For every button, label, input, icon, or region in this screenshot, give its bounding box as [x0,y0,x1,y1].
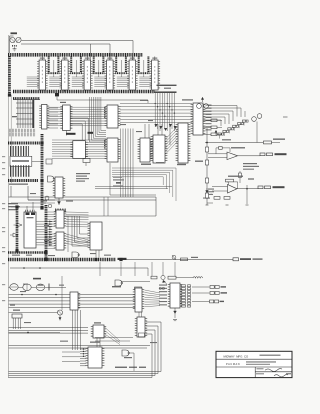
IC U7 [63,105,71,131]
U7 ref label [60,102,66,103]
wire [21,43,110,45]
IC U9 [107,138,118,162]
IC U26 [88,347,102,368]
wire [132,41,134,60]
resistor ladder R13 [228,128,231,130]
op-amp label [231,147,245,148]
+5V arrow 2 [215,131,217,135]
transistor Q10 [48,204,52,208]
vertical wire [246,185,248,204]
wire [62,351,80,353]
+5v label [248,178,254,179]
nested wires [72,216,88,246]
gate G1 [48,176,55,182]
transistor Q7 [257,114,262,119]
parts near op-amp 2 [210,193,212,195]
bus (bottom band under ICs) [13,90,154,93]
IC U24 [135,288,142,312]
wire [121,281,150,283]
resistor R23 [205,160,208,165]
junction dots on y268 [23,267,25,269]
IC U4 stubs [109,57,111,61]
wire [204,117,226,124]
pin fan left of U2 [49,76,61,78]
wire fan right [66,211,89,214]
bus tap blob [66,133,76,135]
wire [103,197,105,216]
zener D3 [206,188,208,196]
bus (vertical drop) [102,57,104,73]
left label block [208,189,214,190]
op-amp 2 label [228,176,243,177]
net label [12,255,20,256]
arrowheads [49,221,52,222]
IC U11 [55,177,63,198]
transistor Q1 [10,37,15,42]
junction blob [40,179,43,182]
IC U24 fan [145,290,161,293]
U4 ref label [107,58,112,59]
label smudges U26 [90,342,100,343]
part [83,159,90,163]
label block [76,173,90,174]
wire [95,186,172,188]
IC U5 [129,60,136,90]
wire [28,186,156,200]
net label [66,201,73,202]
junction dots U8 left [104,107,105,108]
IC U6 [152,60,159,90]
resistor R28 [239,171,241,183]
IC U13 [153,135,165,163]
arrow above U28 [164,281,167,285]
wire [22,40,134,42]
svg-text:MIDWAY MFG CO: MIDWAY MFG CO [224,354,249,358]
drawn label [256,373,264,374]
IC U5 stubs [131,57,133,61]
diode D1 [17,223,22,227]
resistor pack RP1 bar [154,91,177,93]
left pins U26 [80,348,86,350]
wire [204,120,222,126]
resistor row [55,209,66,213]
junction blob [44,251,47,254]
IC U3 stubs [86,57,88,61]
IC U27 [137,317,145,337]
speaker label [275,153,287,155]
wire [204,114,230,124]
IC U10 [73,141,86,159]
bus (vertical drop) [48,57,50,73]
IC U23 [70,292,78,310]
part below U27 [139,333,145,337]
net label [20,291,26,292]
label block VOL ADJ [243,163,257,164]
RN1 top bar [13,99,40,101]
wire bundle vert [72,310,74,350]
parts below op-amp [214,197,220,200]
output RC row 1 [210,286,214,289]
label block 4-16 line [113,177,122,178]
capacitor C11 [43,200,47,202]
net label [90,253,96,254]
junction [27,332,29,334]
resistor R27 [226,179,234,182]
wire bundle corners [112,168,176,201]
wire [70,118,88,140]
IC U3 label [86,66,88,84]
junction blob [15,205,18,208]
IC U15 [193,103,203,135]
+5V arrow [202,98,204,102]
date text [286,373,291,374]
output RC row 3 [210,300,214,303]
margin mark [2,247,5,248]
bus (bottom of U) [48,72,60,74]
wire [192,286,210,288]
U6 ref label [152,58,157,59]
signature scribble 2 [274,374,288,377]
approved label [257,368,264,369]
net label [44,225,49,226]
wire [238,155,260,157]
net label [136,131,142,132]
wire fan right 2 [66,234,89,240]
IC U1 label [41,66,43,84]
gate G8 [122,350,129,356]
crystal Y1 [12,314,22,318]
ground [13,48,17,50]
diode D2 [13,233,18,237]
op-amp U31 [228,185,238,194]
U25 ref label [94,322,101,323]
bus (vertical drop) [147,57,149,73]
wire [138,312,140,317]
label [140,100,148,101]
wire [90,44,92,60]
margin mark [2,231,5,232]
resistor ladder R14 [233,125,236,127]
IC U1 stubs [41,57,43,61]
coupling caps C6 [258,186,263,189]
bus (main full-width) [8,258,116,262]
label [12,116,17,117]
part box [46,159,52,164]
coupling caps C5 [260,153,265,156]
resistor R18 [211,126,217,129]
IC U18b [56,232,64,250]
margin mark [2,284,5,285]
wire [9,197,157,216]
junction blob [44,258,47,261]
fine comb rows [9,129,36,133]
capacitor C9 CAP TRIM [233,258,239,261]
wire [9,332,61,334]
junction dots on bundle [155,103,156,104]
IC U15 right labels [206,105,212,106]
wire [110,163,156,195]
net label [191,257,198,258]
IC U3 [84,60,91,90]
net label LIGHTPEN [118,258,127,260]
junction blob [40,141,43,144]
IC U8 [107,105,118,128]
wire [61,276,63,310]
wire bundle y327-333 [9,327,89,329]
IC U2 label [64,66,66,84]
label text [115,367,127,368]
wire bundle [120,129,122,198]
wire [26,206,28,211]
signature scribble [265,369,282,372]
label box P1 [10,156,32,166]
net label [38,285,43,286]
net label [23,284,28,285]
capacitor C1 [12,45,17,47]
IC U14 [178,123,188,163]
net label [148,120,153,121]
title block frame [216,351,292,377]
IC U17b [56,210,64,228]
left rail 2 [10,95,12,183]
resistor R19 [211,133,217,136]
title block rule 2 [216,366,292,368]
wire bundle [154,93,156,127]
resistor R21 [264,141,272,144]
resistor R17 [211,119,217,122]
wire fan [166,127,178,139]
label MIXER [124,357,132,358]
pin fan left of U4 [94,76,106,78]
wire [120,60,122,77]
fine comb rows 2 [9,133,36,137]
wire [176,277,193,279]
resistor rows [182,285,186,287]
bus (vertical drop) [115,57,117,73]
wire under band [57,97,148,104]
wire [96,338,98,347]
bus (lower-left horizontal) [8,251,46,254]
transistor Q5 [204,104,209,109]
resistor ladder R12 [223,130,226,132]
wire [144,124,146,138]
bus (vertical drop) [125,57,127,73]
wire bundle [49,106,107,108]
second resistor col [188,285,191,287]
RN1 right bar [32,100,34,128]
wire [9,286,10,288]
RN1 crossbars [16,102,34,104]
bus (vertical drop) [80,57,82,73]
labels under mid ICs [141,164,151,165]
resistor ladder R11 [218,133,221,135]
wire [60,215,156,217]
wire [32,161,41,163]
resistor R32 [135,287,142,290]
wire bundle y295-307 [9,294,136,296]
transistor Q8 [161,275,165,279]
wire [209,106,238,117]
label block [8,203,18,204]
wire [143,60,145,77]
U3 ref label [85,58,90,59]
wire [204,111,234,121]
label [112,286,121,287]
bus (bottom of U) [138,72,150,74]
junction dots U9 left [104,140,105,141]
wire [126,259,233,261]
wire [75,60,77,77]
wire [237,188,258,190]
transistor Q4 [197,104,202,109]
margin mark [2,208,5,209]
arrowheads RP1 [154,124,157,127]
label MUS [222,139,231,140]
title block rule 3 [255,371,292,373]
wire [65,131,67,136]
U17b left feeds [48,211,56,213]
margin mark [2,174,5,175]
wire fan [150,138,153,140]
wire [95,337,133,339]
wire [70,124,82,140]
net label [48,255,55,256]
junction dots [83,348,85,350]
margin mark [2,263,5,264]
wire bundle [52,139,106,141]
gate G4 [10,284,18,291]
U1 ref label [40,58,45,59]
resistor R22 [205,147,208,152]
wire [169,124,171,145]
wire bundle [120,103,192,105]
connector J1 [58,310,63,315]
IC U12 [140,138,150,162]
IC U28 left labels [159,285,167,286]
gate G7 [115,280,122,286]
dust mark [283,117,288,118]
wire bundle corners bottom [9,322,162,372]
wire [10,35,14,37]
bus (bottom of U) [93,72,105,74]
bus (second left band) [13,97,40,100]
connector comb P1 [10,146,29,157]
bus (vertical lower-left) [16,207,19,251]
bus (vertical drop) [93,57,95,73]
label [273,139,285,140]
bus (vertical drop) [57,57,59,73]
bus (left riser) [8,56,11,95]
IC U16 label [27,217,34,218]
bus (left lower) [8,179,38,182]
net label [150,342,157,343]
pin fan left of U1 [27,76,39,78]
part below U28 [174,308,176,318]
IC U5 label [131,66,133,84]
net label [10,305,15,306]
wire bundle staircase [90,97,107,142]
net label [30,193,36,194]
IC U1 [39,60,46,90]
gate label [33,278,41,280]
title small text 2 [246,361,276,362]
IC U16 [24,212,36,248]
wire [205,142,263,144]
vertical chain [206,128,208,205]
junction dot [246,188,248,190]
IC U4 label [109,66,111,84]
transistor Q2 [16,37,21,42]
bus (top horizontal) [8,53,143,57]
transistor pair above U28 [159,287,161,289]
part below U11 [58,198,60,205]
bus (vertical drop) [138,57,140,73]
IC U25 [93,325,104,338]
IC U19 [90,222,102,250]
wire [9,345,151,347]
junction blob [94,258,97,261]
wire drops from bus [99,262,101,276]
U7a right pin stubs [48,107,58,109]
junction dots [21,294,23,296]
wire [256,122,258,143]
wire [130,353,134,371]
junction blob [119,258,122,261]
margin mark [2,203,5,204]
transistor Q9 [45,196,49,200]
label [157,85,177,86]
ground marks [206,204,209,206]
pin fan left of U3 [72,76,84,78]
title block rule 1 [216,358,292,360]
net label [120,124,126,125]
resistor R25 [205,193,208,198]
IC U28 [170,283,180,308]
margin mark [2,168,5,169]
U18b left feeds [48,233,56,235]
connector comb P2 [10,165,30,177]
part label [11,32,18,34]
resistor R31 [168,276,176,279]
IC U4 [107,60,114,90]
gate G5 [23,284,31,291]
wire [9,36,11,53]
resistor R24 [205,178,208,183]
pin fan left of U6 [139,76,151,78]
net label [24,322,31,323]
wire [109,44,111,60]
U2 ref label [62,58,67,59]
wire [209,108,242,117]
bus (bottom of U) [115,72,127,74]
IC U6 stubs [154,57,156,61]
IC U7a [42,105,48,130]
U5 ref label [130,58,135,59]
transistor Q3 [172,255,176,259]
wire fan [105,327,121,341]
junction blob band [55,93,59,96]
left rail [8,35,10,378]
bus (bottom of U) [70,72,82,74]
wire [70,121,85,140]
net label [59,285,64,286]
title block divider [254,367,256,378]
bus (vertical mid) [45,205,48,258]
resistor ladder R16 [243,120,246,122]
resistor network RN1 grid [17,100,34,128]
wire [157,124,159,135]
pin fan left of U5 [117,76,129,78]
